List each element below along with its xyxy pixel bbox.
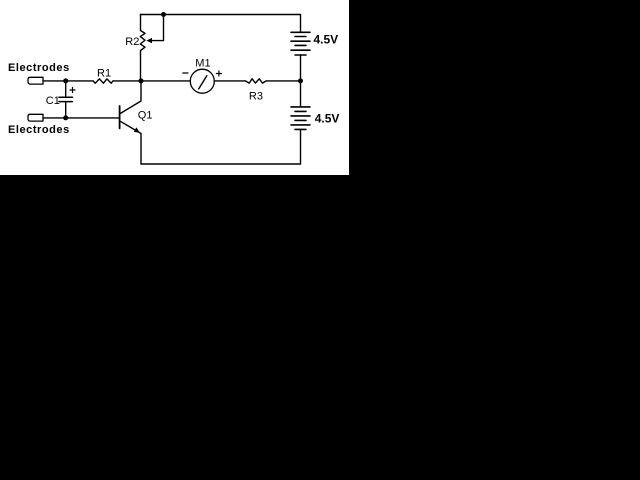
wire electrode (top) to node bbox=[43, 80, 93, 82]
svg-text:R3: R3 bbox=[249, 90, 263, 102]
resistor R1 bbox=[93, 79, 113, 83]
transistor Q1 base bar bbox=[119, 106, 121, 128]
battery B2 plates bbox=[291, 107, 310, 129]
wire meter to R3 bbox=[214, 80, 245, 82]
wire electrode (bottom) to transistor base bbox=[43, 117, 120, 119]
junction node: wiper to top rail bbox=[161, 12, 166, 17]
transistor Q1 collector lead bbox=[120, 81, 141, 114]
C1 plus polarity mark bbox=[70, 88, 75, 93]
svg-text:R2: R2 bbox=[125, 36, 139, 48]
junction node: C1 bottom bbox=[63, 115, 68, 120]
svg-text:M1: M1 bbox=[195, 58, 210, 70]
junction node: C1 top / R1 input bbox=[63, 78, 68, 83]
svg-text:4.5V: 4.5V bbox=[315, 111, 340, 125]
wire top rail from R2 to battery B1 bbox=[141, 15, 301, 33]
svg-text:Q1: Q1 bbox=[138, 110, 153, 122]
capacitor C1 top lead bbox=[65, 81, 67, 97]
junction node: battery midpoint bbox=[298, 78, 303, 83]
electrode terminal (top) bbox=[28, 77, 43, 84]
capacitor C1 plates bbox=[59, 97, 73, 101]
wire R3 to battery rail bbox=[266, 80, 300, 82]
battery B2 bottom lead bbox=[300, 129, 302, 164]
potentiometer R2 body bbox=[140, 15, 145, 81]
transistor Q1 emitter lead bbox=[120, 121, 141, 164]
transistor Q1 emitter arrowhead bbox=[134, 127, 140, 133]
meter minus mark bbox=[183, 72, 188, 74]
R2 wiper arrowhead bbox=[146, 38, 152, 43]
wire R1 to base node bbox=[113, 80, 141, 82]
meter plus mark bbox=[216, 71, 221, 76]
wire bottom rail bbox=[141, 163, 301, 165]
svg-text:C1: C1 bbox=[46, 95, 60, 107]
capacitor C1 bottom lead bbox=[65, 102, 67, 118]
electrode terminal (bottom) bbox=[28, 114, 43, 121]
junction node: R1 / R2 / collector bbox=[139, 78, 144, 83]
battery B1 bottom lead bbox=[300, 55, 302, 81]
R2 wiper arm bbox=[151, 15, 164, 41]
svg-text:Electrodes: Electrodes bbox=[8, 62, 70, 74]
meter M1 needle bbox=[199, 76, 207, 89]
wire node to meter bbox=[141, 80, 190, 82]
svg-text:4.5V: 4.5V bbox=[314, 32, 339, 46]
battery B2 top lead bbox=[300, 81, 302, 107]
meter M1 body bbox=[190, 69, 214, 93]
battery B1 plates bbox=[291, 32, 310, 55]
resistor R3 bbox=[245, 79, 266, 83]
svg-text:R1: R1 bbox=[97, 68, 111, 80]
svg-text:Electrodes: Electrodes bbox=[8, 124, 70, 136]
